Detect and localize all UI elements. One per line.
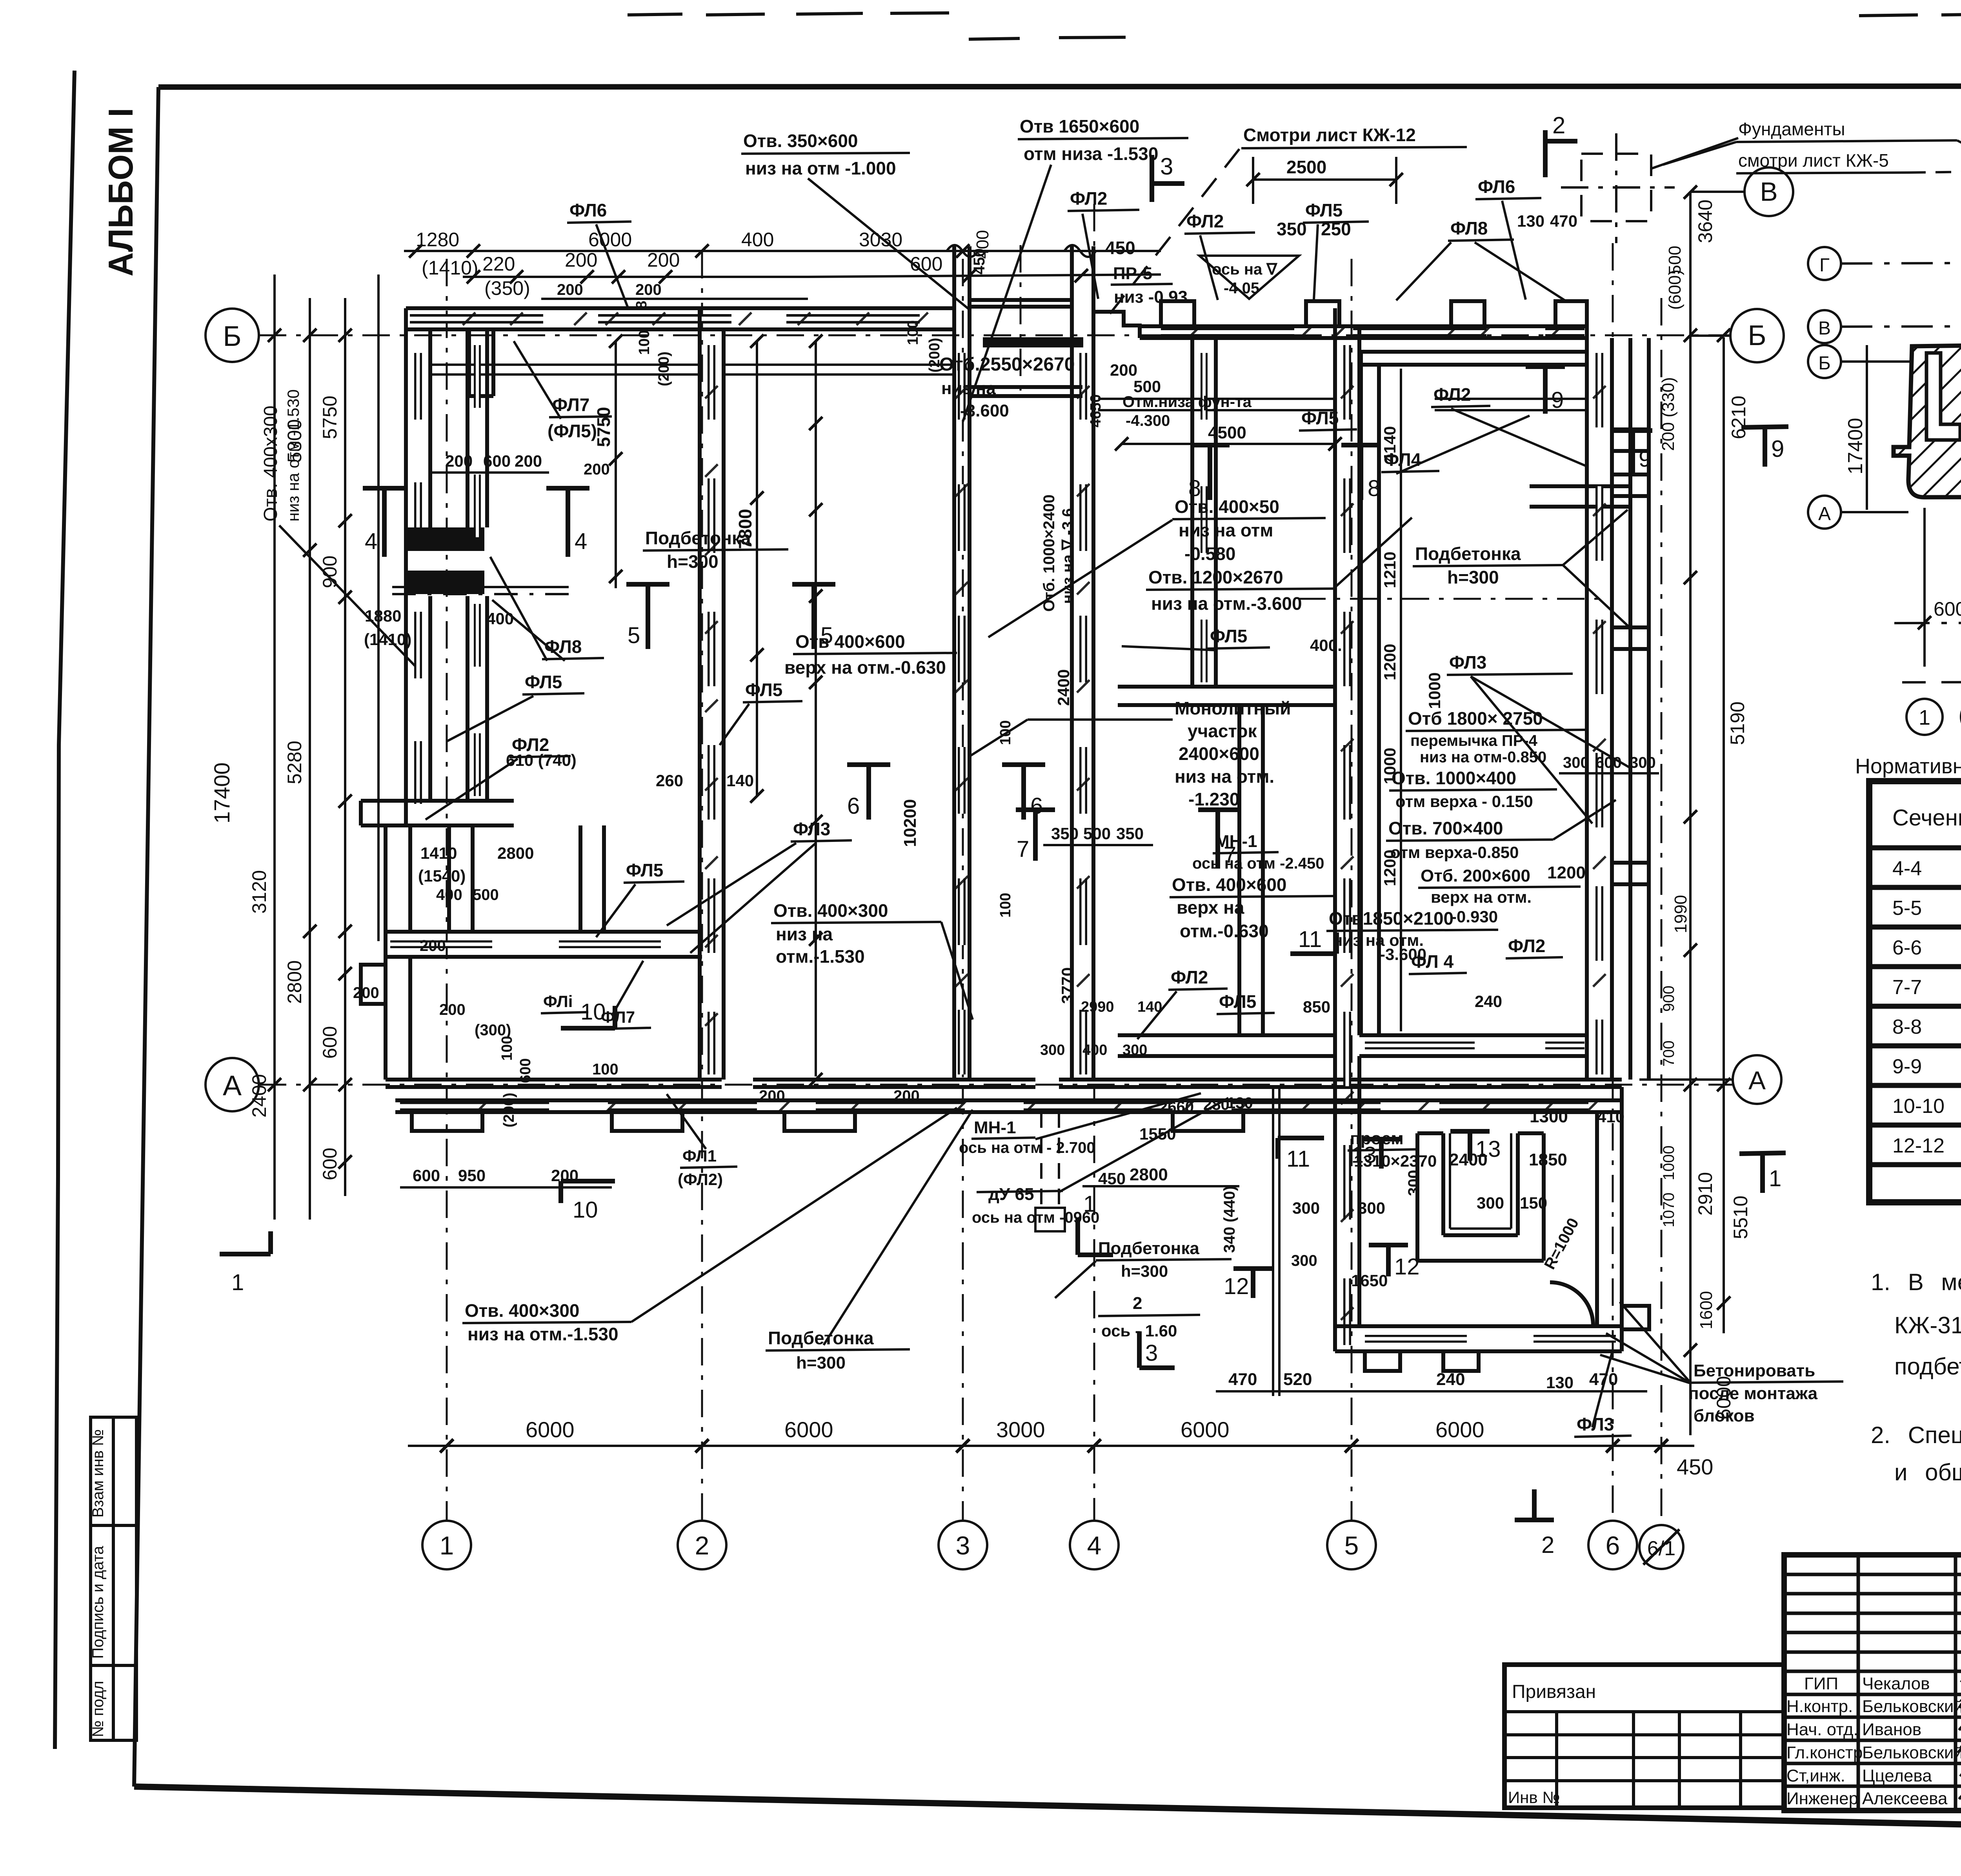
svg-text:4: 4	[1087, 1531, 1102, 1560]
svg-text:17400: 17400	[1844, 418, 1867, 474]
svg-text:низ на: низ на	[941, 379, 996, 398]
node B (left big) circle	[1730, 309, 1784, 362]
svg-text:470: 470	[1228, 1370, 1257, 1389]
svg-text:130: 130	[1546, 1373, 1574, 1392]
left hatched building	[1894, 340, 1961, 548]
svg-text:ФЛ2: ФЛ2	[1171, 967, 1208, 987]
svg-text:низ на отм -1.000: низ на отм -1.000	[745, 158, 896, 178]
svg-text:470: 470	[1550, 212, 1577, 230]
svg-text:2800: 2800	[1130, 1165, 1168, 1184]
svg-text:Ццелева: Ццелева	[1862, 1766, 1932, 1785]
svg-text:верх на отм.-0.630: верх на отм.-0.630	[784, 657, 946, 678]
svg-text:2400: 2400	[248, 1074, 270, 1118]
svg-text:Инженер: Инженер	[1786, 1789, 1858, 1808]
right outer ledge	[1612, 338, 1649, 1080]
svg-text:верх на: верх на	[1177, 897, 1244, 918]
svg-text:17400: 17400	[209, 762, 234, 823]
svg-text:900: 900	[1660, 985, 1677, 1012]
second faint dim line	[1902, 681, 1961, 682]
svg-text:-3.600: -3.600	[960, 401, 1009, 420]
svg-text:1280: 1280	[416, 229, 459, 251]
svg-text:низ на отм: низ на отм	[1179, 520, 1273, 540]
svg-text:340 (440): 340 (440)	[1221, 1186, 1238, 1253]
svg-text:450: 450	[971, 248, 988, 274]
svg-text:ФЛ3: ФЛ3	[793, 819, 830, 839]
svg-text:Подбетонка: Подбетонка	[645, 528, 751, 548]
svg-text:5: 5	[628, 623, 640, 648]
svg-text:1070: 1070	[1660, 1192, 1677, 1227]
svg-text:5-5: 5-5	[1892, 897, 1922, 920]
svg-text:(1540): (1540)	[418, 867, 466, 885]
svg-text:5190: 5190	[1726, 702, 1748, 745]
svg-text:500: 500	[473, 886, 499, 903]
svg-text:ГИП: ГИП	[1804, 1674, 1838, 1693]
svg-text:4650: 4650	[1088, 394, 1104, 427]
svg-text:140: 140	[1137, 999, 1162, 1015]
svg-text:Сечения: Сечения	[1892, 805, 1961, 831]
svg-text:Отб. 200×600: Отб. 200×600	[1421, 866, 1530, 885]
svg-text:Н.контр.: Н.контр.	[1786, 1697, 1853, 1716]
svg-text:200: 200	[445, 452, 473, 470]
droppers to dim line	[1925, 471, 1961, 686]
svg-text:1880: 1880	[365, 607, 401, 625]
svg-text:Б: Б	[1818, 353, 1831, 374]
svg-text:4: 4	[365, 529, 377, 554]
svg-text:Монолитный: Монолитный	[1175, 698, 1291, 718]
svg-text:Смотри лист КЖ-12: Смотри лист КЖ-12	[1243, 125, 1416, 145]
svg-text:ФЛ7: ФЛ7	[601, 1008, 635, 1026]
svg-text:Инв №: Инв №	[1508, 1788, 1560, 1807]
svg-text:1: 1	[1769, 1166, 1781, 1191]
svg-text:дУ 65: дУ 65	[988, 1185, 1034, 1204]
svg-text:(600): (600)	[1665, 269, 1684, 310]
stub verticals in left lower area	[449, 825, 604, 932]
svg-text:ФЛ2: ФЛ2	[1186, 211, 1224, 231]
svg-text:350: 350	[1051, 824, 1079, 843]
svg-text:300: 300	[1630, 754, 1656, 771]
svg-text:300: 300	[1040, 1042, 1065, 1058]
B wall right section	[1140, 326, 1587, 338]
svg-text:140: 140	[726, 771, 754, 790]
svg-text:3030: 3030	[859, 229, 902, 251]
tabs below A wall	[412, 1112, 1243, 1131]
svg-text:смотри лист КЖ-5: смотри лист КЖ-5	[1738, 150, 1889, 171]
svg-text:3120: 3120	[248, 870, 270, 914]
bay 5-6 interior	[1359, 352, 1632, 1056]
svg-text:950: 950	[458, 1166, 486, 1185]
svg-text:600: 600	[517, 1058, 534, 1083]
svg-text:2800: 2800	[284, 960, 306, 1004]
opening stub in B wall left block	[469, 329, 493, 396]
svg-text:верх на отм.: верх на отм.	[1431, 888, 1532, 906]
svg-text:1600: 1600	[1697, 1291, 1716, 1329]
svg-text:Алексеева: Алексеева	[1862, 1789, 1948, 1808]
svg-text:6000: 6000	[588, 229, 632, 251]
leader to dashed square	[1957, 140, 1961, 180]
svg-text:520: 520	[1283, 1370, 1312, 1389]
svg-text:Отв. 1200×2670: Отв. 1200×2670	[1148, 567, 1283, 587]
inner vertical left block	[468, 329, 487, 801]
svg-text:200: 200	[893, 1087, 920, 1105]
svg-text:240: 240	[1475, 992, 1502, 1011]
bottom axis circles 1-11	[1906, 699, 1961, 735]
svg-text:(1410): (1410)	[364, 630, 411, 649]
svg-text:200 (330): 200 (330)	[1659, 377, 1678, 451]
svg-text:низ на отм.-3.600: низ на отм.-3.600	[1151, 593, 1302, 614]
svg-text:низ на отм-0.850: низ на отм-0.850	[1420, 749, 1546, 766]
svg-text:низ на: низ на	[776, 924, 833, 944]
svg-text:1: 1	[440, 1531, 454, 1560]
svg-text:ФЛ6: ФЛ6	[1478, 176, 1515, 197]
svg-text:Отв. 400×600: Отв. 400×600	[1172, 874, 1287, 895]
section mark 2 bottom right of plan	[1515, 1489, 1554, 1520]
svg-text:100: 100	[905, 320, 921, 345]
pier block left	[406, 527, 484, 551]
svg-text:ФЛ2: ФЛ2	[1433, 384, 1471, 405]
axis row circles G V B A	[1808, 247, 1841, 529]
tabs below lower block	[1365, 1306, 1649, 1371]
svg-text:1000: 1000	[1425, 673, 1444, 709]
svg-text:100: 100	[997, 893, 1014, 918]
svg-text:700: 700	[1660, 1040, 1677, 1067]
svg-text:200: 200	[439, 1001, 466, 1018]
axis-2 wall	[700, 308, 724, 1080]
lower extension block	[1335, 1087, 1622, 1351]
svg-text:Взам инв №: Взам инв №	[89, 1429, 107, 1518]
svg-text:ФЛ1: ФЛ1	[682, 1147, 717, 1165]
svg-text:1000: 1000	[1381, 748, 1399, 784]
svg-text:200: 200	[759, 1087, 785, 1105]
svg-text:300: 300	[1291, 1252, 1317, 1269]
svg-text:300: 300	[1563, 754, 1589, 771]
svg-text:260: 260	[656, 771, 683, 790]
svg-text:350: 350	[1116, 824, 1144, 843]
svg-text:ФЛ 4: ФЛ 4	[1411, 951, 1454, 972]
svg-text:2660: 2660	[1159, 1098, 1194, 1116]
svg-text:Нач. отд.: Нач. отд.	[1786, 1720, 1858, 1739]
svg-text:Отв. 400х300: Отв. 400х300	[260, 405, 281, 522]
parapet bumps above right B wall	[1161, 301, 1587, 326]
svg-text:низ на отм.-1.530: низ на отм.-1.530	[468, 1324, 618, 1344]
svg-text:5750: 5750	[319, 396, 341, 439]
node B circle	[1745, 167, 1793, 216]
svg-text:11: 11	[1286, 1146, 1310, 1172]
svg-text:ось на отм - 2.700: ось на отм - 2.700	[959, 1139, 1095, 1156]
svg-text:11: 11	[1298, 927, 1322, 952]
shaft horizontals	[970, 300, 1082, 396]
svg-text:6000: 6000	[526, 1417, 575, 1442]
svg-text:5280: 5280	[284, 741, 306, 784]
svg-text:9: 9	[1771, 436, 1784, 462]
svg-text:Отм.низа фун-та: Отм.низа фун-та	[1122, 393, 1252, 411]
dU65 riser below A between 3-4	[1035, 1112, 1065, 1231]
dim line with 6000s	[1894, 622, 1961, 623]
svg-text:300: 300	[1122, 1042, 1147, 1058]
svg-text:ось на отм -2.450: ось на отм -2.450	[1192, 855, 1324, 872]
grid circle B left	[206, 309, 259, 362]
svg-text:Отв. 400×300: Отв. 400×300	[773, 900, 888, 921]
svg-text:6210: 6210	[1728, 396, 1750, 439]
svg-text:3770: 3770	[1058, 967, 1077, 1004]
svg-text:200: 200	[635, 281, 662, 298]
svg-text:ФЛ5: ФЛ5	[1210, 626, 1247, 646]
svg-text:600: 600	[413, 1166, 440, 1185]
svg-text:ФЛi: ФЛi	[543, 992, 573, 1011]
svg-text:Бетонировать: Бетонировать	[1694, 1361, 1815, 1380]
svg-text:400: 400	[1082, 1042, 1107, 1058]
svg-text:1210: 1210	[1381, 552, 1399, 588]
svg-text:ФЛ5: ФЛ5	[1301, 408, 1339, 428]
svg-text:h=300: h=300	[667, 551, 719, 572]
svg-text:блоков: блоков	[1694, 1406, 1755, 1425]
svg-text:(ФЛ5): (ФЛ5)	[548, 421, 597, 441]
top dimension chains	[404, 251, 1161, 299]
svg-text:400: 400	[741, 229, 774, 251]
svg-text:2990: 2990	[1081, 999, 1114, 1015]
svg-text:2: 2	[1133, 1294, 1142, 1313]
svg-text:ФЛ2: ФЛ2	[1070, 188, 1107, 209]
svg-text:Привязан: Привязан	[1512, 1681, 1596, 1702]
svg-text:Фундаменты: Фундаменты	[1738, 119, 1845, 139]
svg-text:подбетонку от отметки - 4.300: подбетонку от отметки - 4.300 до отметки…	[1894, 1353, 1961, 1380]
svg-text:3000: 3000	[996, 1417, 1045, 1442]
svg-text:ось - 1.60: ось - 1.60	[1101, 1322, 1177, 1340]
svg-text:10: 10	[573, 1197, 598, 1223]
svg-text:Подбетонка: Подбетонка	[1098, 1239, 1199, 1258]
svg-text:200: 200	[353, 984, 379, 1002]
svg-text:ФЛ3: ФЛ3	[1449, 652, 1486, 673]
svg-text:ФЛ5: ФЛ5	[745, 680, 782, 700]
axis-6 wall	[1587, 301, 1612, 1080]
svg-text:5750: 5750	[593, 407, 614, 447]
svg-text:130: 130	[1517, 212, 1544, 230]
svg-text:№ подл: № подл	[89, 1681, 107, 1737]
svg-text:5510: 5510	[1730, 1196, 1752, 1239]
svg-text:ФЛ8: ФЛ8	[1450, 218, 1488, 238]
R1000 fillet	[1550, 1282, 1593, 1325]
vertical axis dash-dot lines 1..6/1	[447, 204, 1661, 1522]
svg-text:Б: Б	[1748, 320, 1766, 351]
left rotated mini table	[89, 1417, 136, 1740]
svg-text:МН-1: МН-1	[1215, 832, 1257, 851]
svg-text:400: 400	[486, 609, 514, 628]
svg-text:Отв. 400×50: Отв. 400×50	[1175, 496, 1279, 517]
grid circle A left	[206, 1058, 259, 1111]
section mark 3 top	[1152, 155, 1184, 202]
svg-text:Подбетонка: Подбетонка	[768, 1328, 874, 1348]
svg-text:Отв1850×2100: Отв1850×2100	[1329, 908, 1453, 929]
svg-text:350: 350	[1277, 219, 1307, 239]
svg-text:отм.-0.630: отм.-0.630	[1180, 921, 1269, 941]
section line pair below A bay 4-5	[1273, 1087, 1279, 1396]
svg-text:Отв. 350×600: Отв. 350×600	[743, 131, 858, 151]
B-wall step right of shaft	[1093, 312, 1140, 338]
svg-text:8-8: 8-8	[1892, 1016, 1922, 1038]
svg-text:-1.230: -1.230	[1188, 789, 1239, 809]
svg-text:850: 850	[1303, 998, 1330, 1016]
svg-text:Отв. 400×300: Отв. 400×300	[465, 1300, 580, 1321]
axis-5 wall	[1335, 308, 1359, 1351]
svg-text:(200): (200)	[926, 338, 943, 373]
svg-text:2: 2	[1541, 1532, 1554, 1558]
svg-text:А: А	[223, 1070, 242, 1102]
svg-text:МН-1: МН-1	[974, 1118, 1016, 1137]
svg-text:(300): (300)	[475, 1022, 511, 1039]
svg-text:1650: 1650	[1351, 1271, 1388, 1290]
svg-text:6-6: 6-6	[1892, 936, 1922, 959]
svg-text:3640: 3640	[1694, 200, 1716, 243]
svg-text:200: 200	[557, 281, 583, 298]
svg-text:1310×2370: 1310×2370	[1354, 1152, 1437, 1170]
svg-text:1410: 1410	[420, 844, 457, 862]
svg-text:300: 300	[1358, 1199, 1385, 1217]
svg-text:600: 600	[483, 452, 511, 470]
svg-text:2. Спецификация к схеме распол: 2. Спецификация к схеме расположения фун…	[1871, 1422, 1961, 1448]
svg-text:отм верха - 0.150: отм верха - 0.150	[1395, 792, 1533, 811]
svg-text:-0.930: -0.930	[1451, 907, 1498, 926]
footing lines below B wall	[430, 365, 1587, 410]
svg-text:12-12: 12-12	[1892, 1134, 1945, 1157]
svg-text:6: 6	[1606, 1531, 1620, 1560]
left outer wall axis 1	[406, 329, 430, 825]
svg-text:h=300: h=300	[1121, 1262, 1168, 1280]
svg-text:ось на отм -0960: ось на отм -0960	[972, 1209, 1099, 1226]
bottom axis circles	[422, 1521, 1683, 1569]
svg-text:400: 400	[436, 886, 462, 903]
svg-text:отм верха-0.850: отм верха-0.850	[1390, 843, 1519, 862]
svg-text:участок: участок	[1188, 721, 1257, 741]
svg-text:7-7: 7-7	[1892, 976, 1922, 999]
svg-text:6: 6	[847, 793, 860, 819]
svg-text:150: 150	[1520, 1194, 1547, 1212]
svg-text:низ на отм.: низ на отм.	[1175, 766, 1274, 787]
privyazan extension	[1504, 1665, 1784, 1808]
svg-text:500: 500	[1133, 377, 1161, 396]
bottom dimension line	[408, 1445, 1694, 1447]
svg-text:280: 280	[1203, 1096, 1230, 1113]
svg-text:7: 7	[1017, 836, 1029, 862]
svg-text:А: А	[1748, 1066, 1766, 1095]
svg-text:8: 8	[633, 301, 650, 309]
svg-text:300: 300	[1292, 1199, 1320, 1217]
bay 4-5 walls	[1118, 338, 1335, 1056]
svg-text:ФЛ2: ФЛ2	[1508, 936, 1545, 956]
svg-text:-0.580: -0.580	[1184, 544, 1235, 564]
svg-text:Отб.2550×2670: Отб.2550×2670	[939, 354, 1075, 375]
svg-text:2: 2	[1552, 112, 1565, 138]
svg-text:3: 3	[1145, 1340, 1158, 1366]
svg-text:200: 200	[584, 461, 610, 478]
svg-text:проем: проем	[1350, 1129, 1404, 1148]
A-axis wall	[386, 1080, 1622, 1112]
svg-text:АЛЬБОМ I: АЛЬБОМ I	[101, 108, 140, 276]
svg-text:Отв. 1000×400: Отв. 1000×400	[1392, 768, 1516, 788]
svg-text:400.: 400.	[1310, 636, 1342, 654]
svg-text:2800: 2800	[497, 844, 534, 862]
svg-text:2: 2	[695, 1531, 709, 1560]
svg-text:ФЛ8: ФЛ8	[544, 636, 582, 657]
svg-text:220: 220	[482, 253, 515, 275]
top scan dashes	[628, 13, 1961, 43]
svg-text:3: 3	[1160, 153, 1173, 180]
svg-text:Отв 400×600: Отв 400×600	[795, 631, 905, 652]
svg-text:4140: 4140	[1381, 426, 1399, 463]
svg-text:5: 5	[1344, 1531, 1359, 1560]
svg-text:900: 900	[319, 556, 341, 588]
svg-text:450: 450	[1677, 1454, 1713, 1479]
svg-text:ФЛ5: ФЛ5	[626, 860, 663, 880]
svg-text:1. В месте примыкания приямка: 1. В месте примыкания приямка ПР-1 (смот…	[1871, 1269, 1961, 1295]
svg-text:В: В	[1818, 318, 1831, 339]
svg-text:ПР-5: ПР-5	[1113, 264, 1152, 283]
svg-text:4-4: 4-4	[1892, 857, 1922, 880]
svg-text:200: 200	[565, 249, 597, 271]
svg-text:ФЛ5: ФЛ5	[1305, 200, 1343, 220]
svg-text:после монтажа: после монтажа	[1688, 1384, 1818, 1403]
svg-text:2400×600: 2400×600	[1179, 743, 1259, 764]
main frame	[158, 86, 1961, 87]
svg-text:450: 450	[1105, 238, 1135, 258]
shaft walls (axis 3-4 corridor)	[954, 246, 1093, 1080]
B-axis wall left section	[406, 308, 953, 329]
svg-text:600: 600	[319, 1026, 341, 1059]
svg-text:10-10: 10-10	[1892, 1095, 1945, 1118]
svg-text:1000: 1000	[1660, 1145, 1677, 1180]
svg-text:8: 8	[1368, 476, 1380, 501]
svg-text:4500: 4500	[1208, 423, 1246, 442]
svg-text:Подбетонка: Подбетонка	[1415, 544, 1521, 564]
svg-text:1990: 1990	[1671, 895, 1690, 933]
svg-text:4: 4	[575, 529, 587, 554]
svg-text:-4.300: -4.300	[1126, 412, 1170, 429]
grid circle A right	[1733, 1055, 1781, 1104]
svg-text:(200): (200)	[656, 351, 672, 386]
horizontal axis dash-dot lines	[259, 334, 1730, 336]
svg-text:Иванов: Иванов	[1862, 1720, 1921, 1739]
svg-text:В: В	[1760, 177, 1777, 207]
svg-text:200: 200	[420, 937, 446, 954]
svg-text:9: 9	[1639, 446, 1651, 472]
svg-text:410: 410	[1597, 1107, 1624, 1126]
svg-text:(ФЛ2): (ФЛ2)	[678, 1170, 723, 1189]
svg-text:h=300: h=300	[1447, 567, 1499, 587]
T9 mark	[1741, 427, 1788, 467]
svg-text:200: 200	[515, 452, 542, 470]
svg-text:Чекалов: Чекалов	[1862, 1674, 1930, 1693]
svg-text:1850: 1850	[1529, 1150, 1567, 1169]
left columns grid	[1784, 1555, 1961, 1811]
svg-text:ФЛ5: ФЛ5	[1219, 991, 1256, 1012]
svg-text:1200: 1200	[1381, 850, 1399, 886]
svg-text:А: А	[1818, 504, 1831, 524]
svg-text:низ на отм -1.530: низ на отм -1.530	[284, 389, 302, 522]
svg-text:3: 3	[956, 1531, 970, 1560]
svg-text:-4 05: -4 05	[1224, 280, 1259, 297]
paper edge line left	[55, 71, 75, 1749]
svg-text:450: 450	[1098, 1169, 1126, 1188]
svg-text:2400: 2400	[1449, 1150, 1488, 1169]
svg-text:1200: 1200	[1381, 644, 1399, 680]
svg-text:h=300: h=300	[796, 1353, 846, 1372]
svg-text:ФЛ6: ФЛ6	[569, 200, 607, 220]
svg-text:9: 9	[1551, 387, 1564, 413]
svg-text:КЖ-31) к конструкции фундамент: КЖ-31) к конструкции фундамента произвес…	[1894, 1312, 1961, 1338]
svg-text:Б: Б	[223, 321, 241, 352]
svg-text:(350): (350)	[484, 277, 530, 299]
svg-text:2500: 2500	[1286, 157, 1326, 177]
svg-text:100: 100	[636, 330, 653, 355]
svg-text:9-9: 9-9	[1892, 1055, 1922, 1078]
